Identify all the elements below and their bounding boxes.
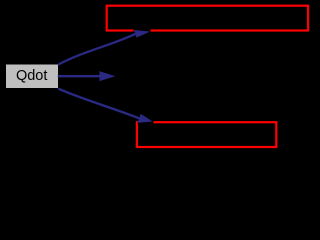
top red box: [107, 6, 308, 31]
bottom red box: [137, 122, 276, 147]
svg-text:Qdot: Qdot: [16, 68, 47, 84]
gap in bottom box border at arrowhead: [138, 121, 154, 124]
wire: edge Qdot middle: [58, 75, 100, 77]
arrowhead: edge to bottom box: [137, 114, 152, 123]
gap in top box border at arrowhead: [134, 29, 151, 32]
wire: edge Qdot to bottom box: [58, 89, 139, 119]
wire: edge Qdot to top box: [58, 34, 135, 65]
arrowhead: edge to top box: [134, 30, 150, 38]
arrowhead: middle edge: [100, 71, 116, 81]
node Qdot: [6, 64, 59, 89]
